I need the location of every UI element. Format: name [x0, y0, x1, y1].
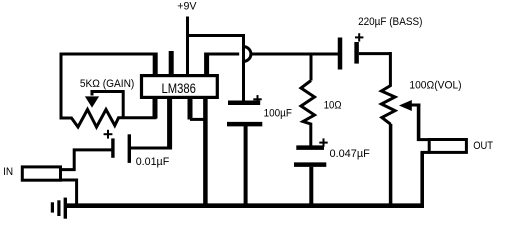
svg-text:10Ω: 10Ω [324, 99, 342, 111]
svg-text:100µF: 100µF [264, 108, 293, 120]
svg-text:5KΩ (GAIN): 5KΩ (GAIN) [80, 78, 134, 90]
svg-text:220µF (BASS): 220µF (BASS) [358, 16, 422, 28]
svg-text:0.047µF: 0.047µF [330, 148, 371, 160]
svg-text:LM386: LM386 [162, 80, 197, 96]
svg-text:+9V: +9V [177, 0, 197, 12]
svg-text:0.01µF: 0.01µF [136, 156, 170, 168]
svg-text:100Ω(VOL): 100Ω(VOL) [409, 79, 461, 91]
svg-text:OUT: OUT [473, 140, 493, 152]
svg-text:IN: IN [3, 166, 13, 178]
